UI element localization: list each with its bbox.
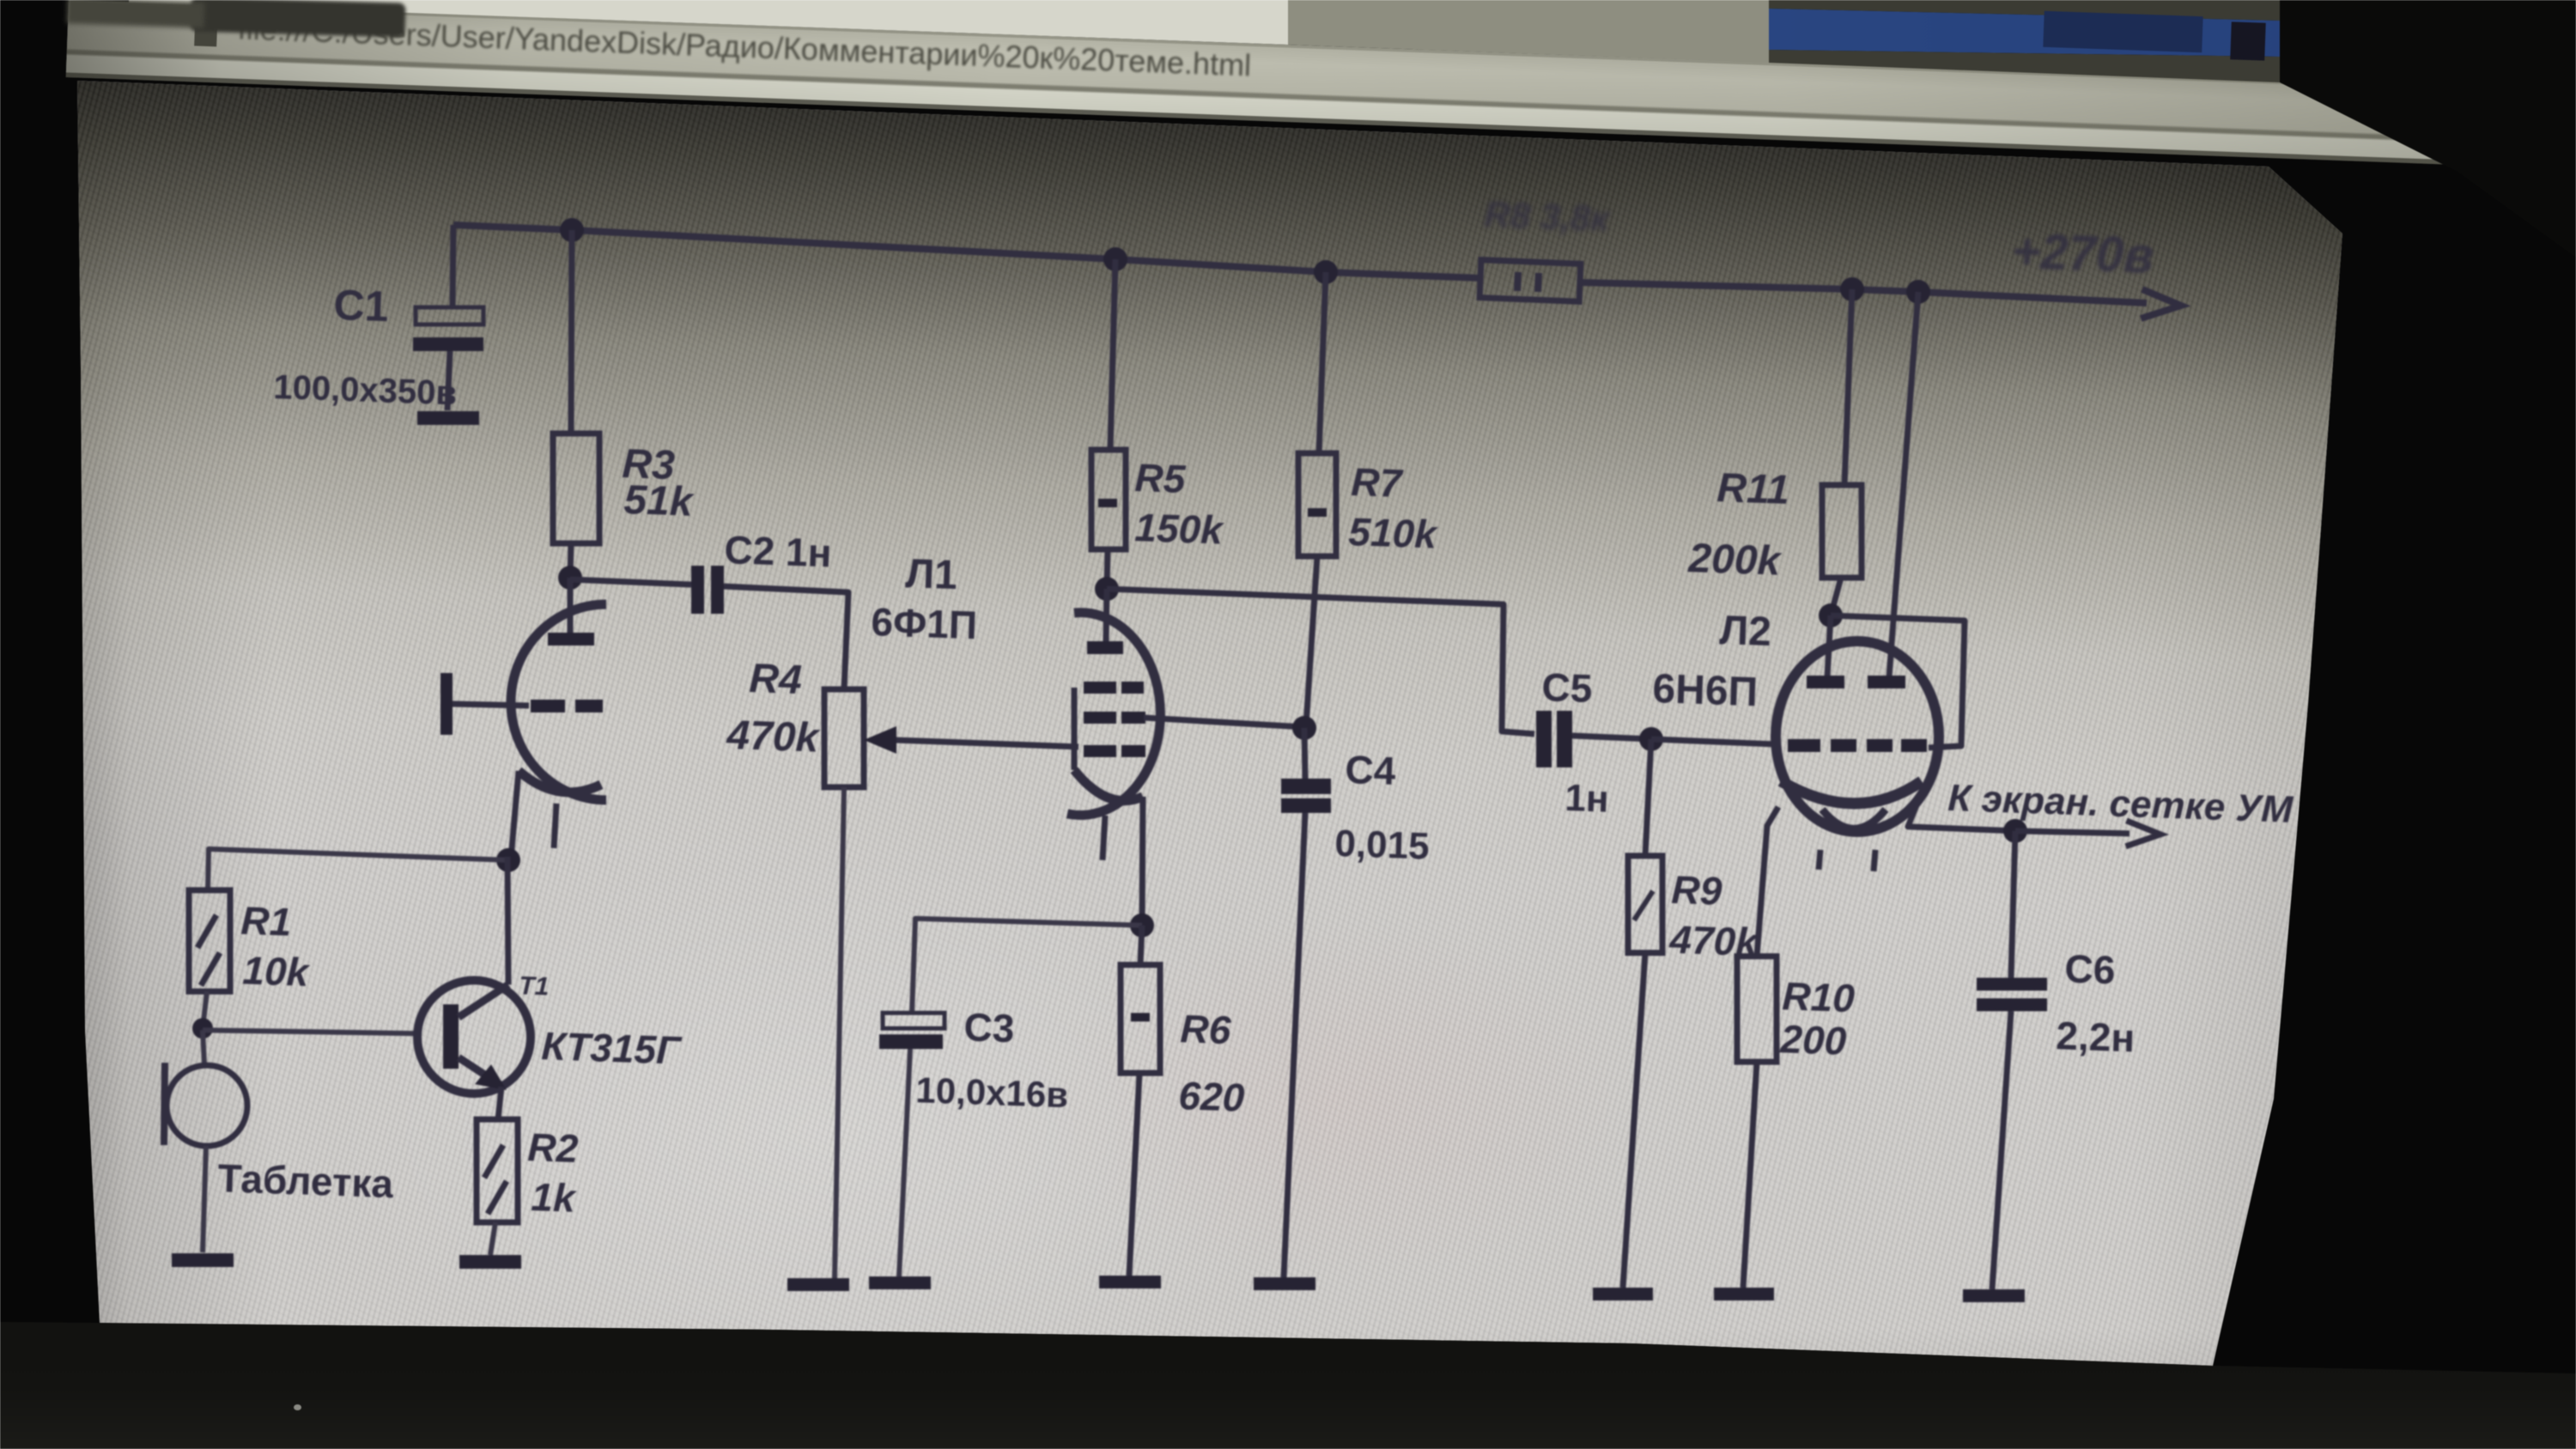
svg-text:2,2н: 2,2н [2056, 1013, 2136, 1060]
svg-text:1k: 1k [531, 1174, 578, 1221]
svg-text:R6: R6 [1180, 1006, 1232, 1052]
svg-text:R4: R4 [749, 656, 803, 703]
svg-text:100,0x350в: 100,0x350в [273, 368, 458, 412]
svg-text:510k: 510k [1348, 509, 1440, 557]
svg-text:C6: C6 [2064, 946, 2117, 992]
svg-text:Т1: Т1 [519, 972, 550, 1001]
svg-text:R11: R11 [1716, 465, 1790, 513]
svg-text:К экран. сетке УМ: К экран. сетке УМ [1947, 777, 2295, 831]
svg-text:R10: R10 [1782, 973, 1856, 1021]
svg-text:51k: 51k [623, 477, 696, 525]
svg-text:КТ315Г: КТ315Г [541, 1023, 683, 1073]
svg-text:C1: C1 [333, 281, 390, 330]
svg-text:C5: C5 [1541, 664, 1594, 711]
svg-text:R2: R2 [527, 1125, 580, 1171]
svg-text:C4: C4 [1345, 747, 1397, 793]
svg-text:Л2: Л2 [1719, 608, 1772, 655]
svg-text:R9: R9 [1671, 867, 1723, 913]
svg-text:R7: R7 [1351, 459, 1405, 506]
svg-text:C2 1н: C2 1н [724, 527, 833, 575]
svg-text:6Ф1П: 6Ф1П [871, 599, 978, 647]
svg-text:470k: 470k [726, 712, 822, 761]
svg-text:6Н6П: 6Н6П [1652, 666, 1759, 715]
svg-text:R1: R1 [240, 898, 293, 944]
svg-text:620: 620 [1178, 1073, 1246, 1120]
svg-text:0,015: 0,015 [1334, 822, 1431, 868]
svg-text:R5: R5 [1134, 455, 1188, 501]
svg-text:10k: 10k [242, 948, 312, 995]
svg-text:200: 200 [1779, 1016, 1848, 1064]
svg-text:+270в: +270в [2011, 223, 2155, 284]
svg-text:1н: 1н [1564, 777, 1610, 821]
svg-text:150k: 150k [1134, 505, 1226, 553]
svg-text:R8 3,8к: R8 3,8к [1484, 194, 1611, 239]
svg-text:C3: C3 [963, 1004, 1016, 1051]
svg-text:Таблетка: Таблетка [217, 1155, 395, 1206]
svg-text:10,0x16в: 10,0x16в [915, 1070, 1069, 1115]
svg-text:Л1: Л1 [905, 551, 958, 598]
svg-text:200k: 200k [1687, 536, 1783, 585]
